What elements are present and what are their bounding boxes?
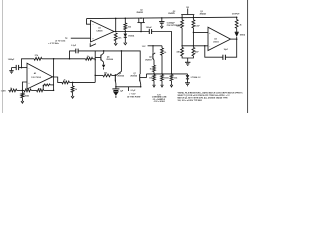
op-amp A1 <box>91 20 115 42</box>
svg-text:1N914: 1N914 <box>240 34 246 37</box>
svg-text:OUTPUT: OUTPUT <box>232 14 240 16</box>
diode 1N914 <box>124 32 126 34</box>
node: rail junction x=115.7 <box>115 18 117 20</box>
wire: +input from divider <box>193 32 208 34</box>
right page border <box>247 0 249 113</box>
op-amp A3 <box>208 27 231 50</box>
wire: rail to A1 output junction <box>115 18 117 31</box>
wire: 100pF to divider bus <box>152 32 172 74</box>
resistor 2k in bus <box>86 57 93 60</box>
resistor 3k bottom <box>7 89 10 91</box>
svg-text:250Ω: 250Ω <box>24 95 29 97</box>
wire: A3 output <box>231 38 237 40</box>
resistor 4.3k left source <box>181 18 183 20</box>
svg-text:1.35V: 1.35V <box>1 90 7 92</box>
svg-text:≈ −0.5V: ≈ −0.5V <box>129 94 136 96</box>
svg-text:43k*: 43k* <box>177 51 181 54</box>
capacitor 1uF to -V <box>115 87 117 89</box>
node: junction on A1 output wire x=125.3 <box>125 31 127 33</box>
svg-text:Q4: Q4 <box>149 56 151 59</box>
node: bus junction x=162.0 <box>161 73 162 74</box>
resistor 43k* left <box>181 45 183 47</box>
svg-text:5k: 5k <box>75 89 77 91</box>
transistor Q6 2N3904 <box>114 74 116 81</box>
svg-text:LT1004-1.2: LT1004-1.2 <box>191 76 201 79</box>
resistor 1k below Q4 <box>153 65 156 71</box>
svg-text:4.3k*: 4.3k* <box>195 25 200 28</box>
wire: A2 output up/down <box>53 59 54 77</box>
node: rail junction x=193.4 <box>193 17 195 19</box>
svg-text:AT THIS POINT: AT THIS POINT <box>127 95 141 98</box>
node: junction on A1 output wire x=141.0 <box>140 31 142 33</box>
wire: left leg <box>94 51 96 83</box>
svg-text:2k: 2k <box>240 24 242 26</box>
wire: -input line <box>182 45 208 47</box>
wire: resistor bottoms joined <box>182 56 193 58</box>
node: rail junction x=161.8 <box>161 17 163 19</box>
wire: left leg down <box>181 28 183 45</box>
resistor 25k <box>124 18 126 23</box>
power arrow -V below 1N914 <box>124 38 126 44</box>
svg-text:43k*: 43k* <box>195 51 199 54</box>
svg-text:20k: 20k <box>104 72 107 74</box>
capacitor 10pF feedback <box>205 46 223 57</box>
transistor Q5 2N3904 <box>100 55 102 61</box>
diode LT1004-1.2V <box>187 74 189 75</box>
node: A2 minus input <box>21 67 23 69</box>
wire: A1 feedback loop to rail <box>87 19 91 25</box>
svg-text:2N3904: 2N3904 <box>117 75 124 78</box>
resistor 2k pull <box>235 20 238 29</box>
resistor 5k to -V <box>72 82 74 86</box>
resistor 4.3k right source <box>192 18 194 20</box>
svg-text:1N914: 1N914 <box>128 35 135 38</box>
svg-text:A3: A3 <box>214 37 216 40</box>
wire: fIN to A1 + input <box>71 37 91 39</box>
svg-text:2N3904: 2N3904 <box>106 58 113 61</box>
wire: A2 output jog <box>54 77 62 82</box>
svg-text:2N4340: 2N4340 <box>200 13 207 16</box>
resistor 27k feedback <box>22 59 35 68</box>
wire: 1.2V node <box>148 45 162 47</box>
wire: collector bus y=50.9 <box>78 51 140 74</box>
resistor 2.5k bus right <box>170 75 173 81</box>
svg-text:LM311: LM311 <box>213 41 219 43</box>
capacitor 0.0068uF to ground <box>161 18 163 21</box>
resistor 10k bottom <box>37 89 44 92</box>
wire: A2 + input <box>22 82 27 90</box>
capacitor 100pF <box>148 29 150 34</box>
svg-text:A1: A1 <box>98 27 100 30</box>
ground center <box>187 58 189 62</box>
svg-text:3k: 3k <box>10 88 12 90</box>
svg-text:200Ω: 200Ω <box>164 78 169 80</box>
wire: bus <box>147 73 188 75</box>
transistor Q4 2N2907 <box>152 46 154 53</box>
resistor 20k base <box>103 74 112 77</box>
node: bus junction x=154.0 <box>153 73 154 74</box>
wire: emitters <box>116 86 141 88</box>
resistor 10k <box>114 33 117 41</box>
current arrow below Q5 <box>103 62 105 64</box>
svg-text:1000pF: 1000pF <box>8 59 15 61</box>
node: junction on A1 output wire x=115.7 <box>115 31 117 33</box>
left page border <box>1 0 3 113</box>
node: rail junction x=141.0 <box>140 17 142 19</box>
svg-text:= 0 TO 5kHz: = 0 TO 5kHz <box>48 43 59 45</box>
op-amp A2 <box>27 63 53 89</box>
resistor 43k* right <box>192 45 194 47</box>
ground below LT1004 <box>185 82 190 84</box>
svg-text:2N3904: 2N3904 <box>130 75 137 78</box>
node: rail junction x=236.7 <box>236 16 238 18</box>
resistor 2k <box>161 46 163 48</box>
wire: right leg down <box>192 28 194 45</box>
svg-text:2k: 2k <box>87 56 89 58</box>
wire: A1 output node line <box>114 31 149 33</box>
svg-text:2N4393: 2N4393 <box>137 11 144 14</box>
node: rail junction x=182.1 <box>181 17 183 19</box>
power arrow -V below 10k <box>115 41 117 44</box>
svg-text:−15V = HOLD: −15V = HOLD <box>153 101 165 103</box>
svg-text:100pF: 100pF <box>146 27 153 29</box>
wire: A1 offset strobe stub <box>90 43 96 46</box>
svg-text:1k: 1k <box>64 80 66 82</box>
svg-text:10k: 10k <box>38 89 41 91</box>
svg-text:2N2907: 2N2907 <box>145 59 152 61</box>
ground at 1000pF <box>11 68 13 71</box>
resistor 200 bus mid <box>161 75 164 81</box>
resistor mid bottom <box>24 89 31 92</box>
svg-text:10k: 10k <box>149 78 152 80</box>
svg-text:100, 20 f = ±0.05% TYP MAX: 100, 20 f = ±0.05% TYP MAX <box>178 99 203 102</box>
resistor 1k in A2 out <box>62 81 70 84</box>
svg-text:LM308: LM308 <box>97 30 103 32</box>
svg-text:1/2 LT1014: 1/2 LT1014 <box>31 76 40 79</box>
node: rail junction x=125.3 <box>125 17 127 19</box>
resistor trim at A2 bottom edge <box>43 84 50 86</box>
svg-text:0.1µF: 0.1µF <box>71 45 77 47</box>
svg-text:4.3k*: 4.3k* <box>177 25 182 28</box>
svg-text:0.1µF: 0.1µF <box>131 90 137 92</box>
svg-text:2.5k: 2.5k <box>174 78 178 80</box>
wire: feedback bus y=58.8 <box>42 58 86 60</box>
wire: top rail <box>87 17 237 18</box>
node: bus junction x=171.5 <box>171 73 172 74</box>
resistor 10k bus left <box>153 75 156 81</box>
svg-text:1k: 1k <box>150 68 152 70</box>
svg-text:2k: 2k <box>164 52 166 54</box>
resistor 250 to ground <box>21 90 23 92</box>
svg-text:A2: A2 <box>34 72 36 75</box>
diode 1N914 output <box>235 31 239 33</box>
transistor Q7 2N3904 <box>139 74 141 81</box>
svg-text:2N4393: 2N4393 <box>168 12 175 15</box>
